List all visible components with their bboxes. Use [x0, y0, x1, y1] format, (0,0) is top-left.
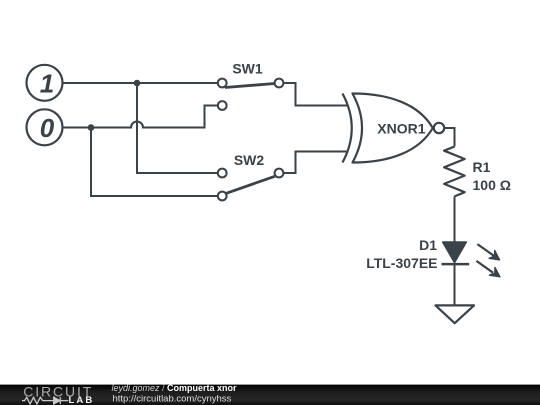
svg-text:D1: D1 — [419, 237, 437, 253]
svg-text:SW2: SW2 — [234, 152, 265, 168]
wire gate output to resistor — [444, 128, 454, 147]
svg-text:leydi.gomez / Compuerta xnor: leydi.gomez / Compuerta xnor — [112, 383, 238, 393]
XNOR output bubble — [434, 123, 444, 133]
svg-text:LAB: LAB — [69, 395, 95, 405]
wire junction down to SW2 top throw — [137, 83, 218, 173]
svg-text:XNOR1: XNOR1 — [377, 121, 425, 137]
svg-text:0: 0 — [40, 113, 55, 143]
footer logo resistor-diode glyph — [22, 397, 68, 404]
node junction on V1 wire — [134, 80, 141, 87]
svg-text:R1: R1 — [473, 159, 491, 175]
svg-text:SW1: SW1 — [232, 61, 263, 77]
svg-text:100 Ω: 100 Ω — [473, 177, 511, 193]
wire V1 to SW1 top throw — [63, 82, 218, 84]
LED light arrow 2 — [476, 261, 500, 277]
ground — [436, 305, 475, 323]
LED light arrow 1 — [477, 244, 499, 260]
svg-text:http://circuitlab.com/cynyhss: http://circuitlab.com/cynyhss — [113, 394, 232, 405]
node junction on V2 wire — [88, 124, 95, 131]
resistor R1 — [444, 147, 465, 197]
XNOR gate U1 body — [343, 94, 433, 163]
switch SW2 — [218, 169, 284, 201]
wire junction down to SW2 bottom throw — [91, 128, 218, 197]
wire V2 with hop to SW1 bottom throw — [63, 106, 218, 128]
wire LED to ground — [454, 264, 456, 306]
wire SW1 common to gate input A — [283, 83, 348, 106]
svg-text:LTL-307EE: LTL-307EE — [366, 255, 437, 271]
switch SW1 — [218, 79, 284, 110]
voltage source V1 (logic 1) — [27, 65, 63, 101]
wire resistor to LED — [454, 196, 456, 242]
voltage source V2 (logic 0) — [27, 109, 63, 145]
LED D1 — [442, 242, 470, 264]
wire SW2 common to gate input B — [283, 152, 348, 174]
footer bar — [0, 385, 540, 405]
svg-text:1: 1 — [40, 68, 54, 98]
